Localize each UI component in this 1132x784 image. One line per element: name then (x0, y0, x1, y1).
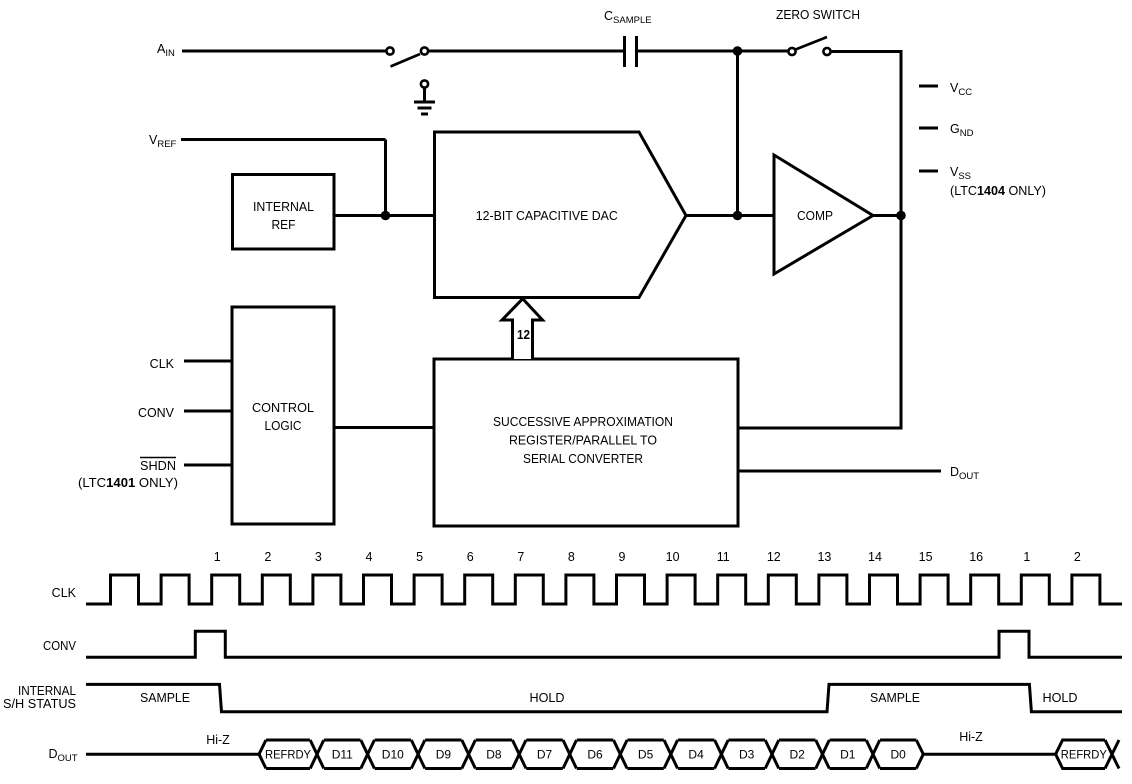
wire DOUT Hi-Z line 2 (923, 753, 1057, 756)
capacitor CSAMPLE (625, 36, 637, 67)
waveform CLK (86, 575, 1122, 604)
svg-text:Hi-Z: Hi-Z (959, 730, 983, 744)
svg-text:16: 16 (969, 550, 983, 564)
svg-text:CONTROL: CONTROL (252, 401, 314, 415)
svg-text:ZERO SWITCH: ZERO SWITCH (776, 8, 860, 22)
wire DOUT output (738, 470, 941, 473)
svg-text:S/H STATUS: S/H STATUS (3, 697, 76, 711)
DOUT data cell labels (265, 748, 906, 762)
svg-text:SUCCESSIVE APPROXIMATION: SUCCESSIVE APPROXIMATION (493, 415, 673, 429)
wire switch to CSAMPLE (428, 50, 623, 53)
wire CONV input stub (184, 410, 232, 413)
DOUT data hexagon chain REFRDY D11-D0 (259, 740, 923, 769)
svg-text:D11: D11 (332, 748, 353, 762)
wire SHDN input stub (184, 464, 232, 467)
svg-text:12: 12 (767, 550, 781, 564)
wire control logic to SAR (334, 426, 434, 429)
junction node DAC output / CSAMPLE (733, 211, 743, 221)
svg-text:COMP: COMP (797, 209, 833, 223)
wire AIN input (182, 50, 387, 53)
svg-text:D0: D0 (891, 748, 907, 762)
wire CSAMPLE to zero switch (638, 50, 789, 53)
svg-text:D6: D6 (587, 748, 603, 762)
wire internal ref to DAC (334, 214, 436, 217)
svg-text:LOGIC: LOGIC (265, 419, 302, 433)
svg-text:D2: D2 (790, 748, 806, 762)
svg-text:12: 12 (517, 328, 530, 342)
pin stub VSS (919, 170, 938, 173)
svg-text:REFRDY: REFRDY (1061, 750, 1107, 762)
svg-text:3: 3 (315, 550, 322, 564)
svg-text:11: 11 (717, 550, 730, 564)
wire junction down to DAC output node (736, 51, 739, 216)
svg-text:D7: D7 (537, 748, 553, 762)
op-amp comparator COMP (774, 155, 873, 274)
svg-text:13: 13 (817, 550, 831, 564)
svg-text:2: 2 (1074, 550, 1081, 564)
wire DOUT Hi-Z line 1 (86, 753, 261, 756)
svg-text:HOLD: HOLD (530, 691, 565, 705)
DOUT final REFRDY hexagon with X (1056, 740, 1105, 769)
block CONTROL LOGIC (232, 307, 334, 524)
svg-text:D9: D9 (436, 748, 452, 762)
svg-text:HOLD: HOLD (1043, 691, 1078, 705)
svg-text:2: 2 (264, 550, 271, 564)
svg-text:12-BIT CAPACITIVE DAC: 12-BIT CAPACITIVE DAC (476, 209, 618, 223)
clock cycle numbers 1-16 1 2 (214, 550, 1081, 564)
block 12-bit capacitive DAC (pentagon) (435, 132, 687, 298)
svg-text:10: 10 (666, 550, 680, 564)
block INTERNAL REF (233, 175, 335, 250)
svg-text:7: 7 (517, 550, 524, 564)
svg-text:Hi-Z: Hi-Z (206, 733, 230, 747)
junction node at CSAMPLE output (733, 46, 743, 56)
svg-text:SERIAL CONVERTER: SERIAL CONVERTER (523, 452, 643, 466)
wire bus to SAR input (738, 427, 903, 430)
svg-text:D4: D4 (688, 748, 704, 762)
svg-text:REFRDY: REFRDY (265, 750, 311, 762)
sample switch S1 (input S/H switch) (386, 47, 428, 66)
bus arrow 12-bit (SAR to DAC) (502, 299, 543, 359)
svg-text:D3: D3 (739, 748, 755, 762)
wire zero switch to right bus (831, 50, 903, 53)
pin stub GND (919, 127, 938, 130)
svg-text:INTERNAL: INTERNAL (18, 684, 76, 698)
svg-text:SAMPLE: SAMPLE (870, 691, 920, 705)
wire comparator output (873, 214, 901, 217)
svg-text:CONV: CONV (138, 406, 175, 420)
wire DAC output to comparator (686, 214, 774, 217)
svg-text:6: 6 (467, 550, 474, 564)
svg-text:REF: REF (272, 218, 296, 232)
wire right feedback bus (900, 50, 903, 430)
waveform internal S/H status (86, 684, 1122, 711)
svg-text:15: 15 (919, 550, 933, 564)
svg-text:SHDN: SHDN (140, 459, 176, 473)
svg-text:4: 4 (366, 550, 373, 564)
svg-text:D1: D1 (840, 748, 856, 762)
waveform CONV (86, 631, 1122, 657)
svg-text:CLK: CLK (150, 357, 175, 371)
svg-text:REGISTER/PARALLEL TO: REGISTER/PARALLEL TO (509, 434, 657, 448)
svg-text:CONV: CONV (43, 639, 77, 653)
svg-text:D5: D5 (638, 748, 654, 762)
svg-text:14: 14 (868, 550, 882, 564)
svg-text:(LTC1401 ONLY): (LTC1401 ONLY) (78, 476, 178, 490)
svg-text:INTERNAL: INTERNAL (253, 200, 314, 214)
junction node comparator output (896, 211, 906, 221)
svg-text:1: 1 (214, 550, 221, 564)
wire VREF down to ref node (384, 140, 387, 216)
svg-text:1: 1 (1023, 550, 1030, 564)
svg-text:5: 5 (416, 550, 423, 564)
svg-text:D8: D8 (486, 748, 502, 762)
svg-text:D10: D10 (382, 748, 404, 762)
svg-text:9: 9 (619, 550, 626, 564)
svg-text:CLK: CLK (52, 586, 77, 600)
svg-text:SAMPLE: SAMPLE (140, 691, 190, 705)
zero switch S2 (788, 37, 830, 55)
svg-text:(LTC1404 ONLY): (LTC1404 ONLY) (950, 184, 1046, 198)
wire CLK input stub (184, 360, 232, 363)
junction node REF (381, 211, 391, 221)
wire VREF input (181, 138, 386, 141)
ground symbol (switch ground) (414, 80, 435, 114)
block SAR/parallel-serial converter (434, 359, 738, 526)
svg-text:8: 8 (568, 550, 575, 564)
pin stub VCC (919, 85, 938, 88)
